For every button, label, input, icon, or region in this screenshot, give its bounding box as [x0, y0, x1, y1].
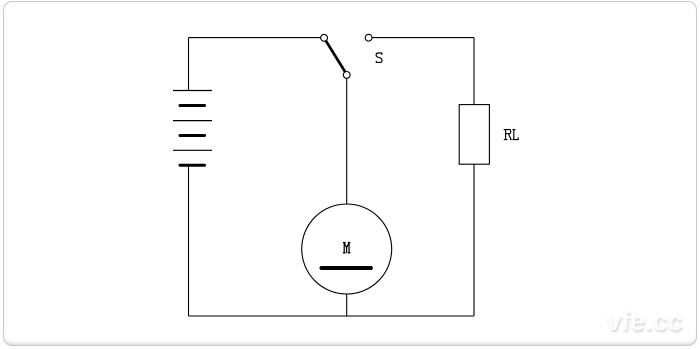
battery long plate 1 [173, 90, 212, 92]
wire: right vertical above resistor [473, 38, 475, 105]
switch pivot contact circle [321, 34, 328, 41]
wire: bottom horizontal [189, 315, 475, 317]
resistor body rectangle [459, 105, 489, 165]
meter thick bar [322, 266, 371, 270]
wire: right vertical below resistor [473, 164, 475, 316]
battery short thick plate 3 [180, 164, 205, 167]
label M [343, 243, 351, 253]
switch blade [326, 41, 345, 72]
wire: switch blade end down to meter top [346, 78, 348, 204]
battery short thick plate 1 [180, 104, 205, 107]
label RL [504, 130, 519, 140]
battery B (3 cells) [173, 91, 212, 166]
switch fixed contact circle [365, 34, 372, 41]
wire: meter bottom to bottom wire [346, 294, 348, 316]
resistor RL [459, 105, 518, 165]
meter circle [302, 204, 392, 294]
battery short thick plate 2 [180, 134, 205, 137]
wire: left vertical below battery to bottom wire [188, 165, 190, 316]
battery long plate 2 [173, 120, 212, 122]
wire: left vertical (top wire down to battery) [188, 38, 190, 91]
switch S [321, 34, 382, 78]
wire: top left segment (battery top to switch pivot) [189, 37, 321, 39]
label S [376, 53, 382, 62]
switch blade end circle [343, 72, 350, 79]
meter M [302, 204, 392, 294]
battery long plate 3 [173, 149, 212, 151]
watermark vfe.cc [606, 306, 683, 337]
wire: top right segment (switch contact to right corner) [372, 37, 474, 39]
